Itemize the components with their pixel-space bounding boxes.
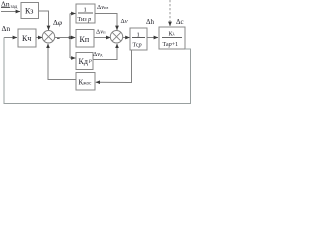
svg-text:Δh: Δh	[146, 18, 155, 26]
wire: outer feedback from plant to Кч input	[4, 38, 191, 104]
svg-text:р: р	[88, 58, 92, 64]
block Кжос	[76, 73, 95, 91]
wire: S2 output to servo block	[123, 37, 130, 39]
svg-text:Тср: Тср	[133, 43, 142, 49]
svg-text:1: 1	[84, 7, 87, 14]
svg-text:Δn: Δn	[2, 24, 11, 33]
svg-text:Δνп: Δνп	[96, 29, 106, 36]
minus sign at S1	[57, 37, 60, 39]
svg-text:Δν: Δν	[121, 18, 128, 25]
wire: Кжос output to summer 1 bottom	[48, 44, 76, 80]
wire: input arrow into Кз	[1, 11, 20, 13]
block servo 1/(Тс p)	[130, 28, 147, 50]
label Δn_зад	[1, 0, 18, 10]
summer S2 (circle with X)	[110, 31, 122, 43]
wire: Кд output to summer 2 bottom	[93, 44, 117, 60]
wire: integrator output to summer 2 top	[95, 14, 117, 31]
svg-text:Кп: Кп	[80, 35, 90, 44]
wire: Δс disturbance (dashed) into plant top	[169, 0, 171, 26]
svg-text:Тиз р: Тиз р	[78, 17, 92, 23]
block plant Кλ/(Тар+1)	[159, 27, 185, 49]
block Кз	[21, 3, 39, 19]
block Кд p	[76, 53, 93, 70]
block Кч	[18, 29, 36, 47]
wire: Δn input into Кч	[4, 37, 17, 39]
wire: S1 output to Кп with junction	[55, 37, 76, 39]
wire: Кз output to summer 1 top	[39, 11, 49, 30]
svg-text:Кз: Кз	[25, 7, 33, 16]
block integrator 1/(Тиз p)	[76, 4, 95, 23]
wire: into integrator	[70, 13, 76, 15]
wire: branch vertical	[69, 14, 71, 59]
wire: branch into Кд	[70, 57, 76, 59]
svg-text:Δνд: Δνд	[93, 51, 103, 58]
svg-text:Δс: Δс	[176, 18, 184, 26]
node: branch junction	[69, 36, 72, 39]
svg-text:Кч: Кч	[22, 34, 31, 43]
wire: Кп output to summer 2	[94, 37, 110, 39]
wire: servo output to plant block	[147, 37, 158, 39]
svg-text:Тар+1: Тар+1	[163, 42, 179, 48]
wire: tap from servo output down	[96, 50, 132, 83]
svg-text:зад: зад	[11, 5, 18, 10]
svg-text:Δφ: Δφ	[53, 18, 62, 27]
block Кп	[76, 30, 94, 48]
svg-text:Δνиз: Δνиз	[97, 4, 108, 11]
wire: Кч output to summer 1	[36, 37, 42, 39]
summer S1 (circle with X)	[42, 31, 54, 43]
svg-text:Кд: Кд	[79, 57, 88, 66]
